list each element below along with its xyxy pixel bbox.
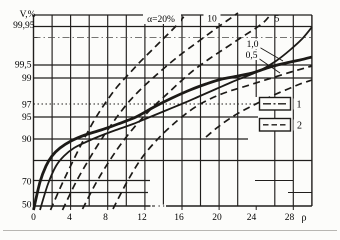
svg-text:99: 99 <box>22 74 32 84</box>
svg-text:8: 8 <box>103 213 108 223</box>
svg-text:5: 5 <box>275 15 280 25</box>
svg-text:28: 28 <box>285 213 295 223</box>
svg-text:99,95: 99,95 <box>13 21 35 31</box>
svg-text:4: 4 <box>67 213 72 223</box>
svg-text:0: 0 <box>31 213 36 223</box>
svg-text:50: 50 <box>22 201 32 211</box>
svg-text:97: 97 <box>22 101 32 111</box>
svg-text:70: 70 <box>22 178 32 188</box>
svg-text:10: 10 <box>207 15 217 25</box>
svg-text:12: 12 <box>137 213 147 223</box>
svg-text:24: 24 <box>247 213 257 223</box>
svg-text:99,5: 99,5 <box>15 61 32 71</box>
svg-text:20: 20 <box>212 213 222 223</box>
svg-text:0,5: 0,5 <box>246 51 258 61</box>
svg-text:1: 1 <box>297 100 302 111</box>
svg-text:2: 2 <box>297 121 302 132</box>
svg-text:α=20%: α=20% <box>147 15 175 25</box>
svg-text:V,%: V,% <box>20 10 36 20</box>
svg-text:95: 95 <box>22 113 32 123</box>
svg-text:1,0: 1,0 <box>247 40 259 50</box>
svg-text:ρ: ρ <box>302 213 307 224</box>
svg-text:90: 90 <box>22 135 32 145</box>
svg-text:16: 16 <box>174 213 184 223</box>
